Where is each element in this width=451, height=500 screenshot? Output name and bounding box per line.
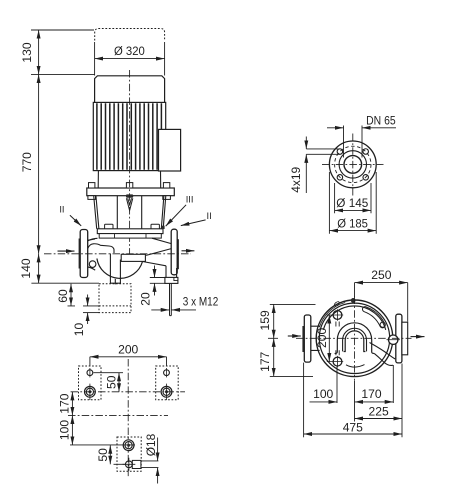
dimension 60 <box>68 284 100 306</box>
vertical chain line <box>127 359 129 477</box>
left foot bolt <box>85 384 96 400</box>
front view: inline pump with motor <box>19 29 218 337</box>
right counterflange <box>402 322 408 355</box>
svg-text:Ø 145: Ø 145 <box>336 196 368 210</box>
bolt hole top-right <box>363 149 369 155</box>
seal housing middle arch <box>343 328 367 351</box>
dimension 250 <box>355 283 408 322</box>
dimension 225 <box>355 364 403 438</box>
fan cover inner circle <box>319 303 389 373</box>
dimension 50 lower <box>110 445 126 464</box>
rear foot pad dashed <box>117 437 141 471</box>
dimension 100 (top view) <box>310 366 338 403</box>
svg-text:50: 50 <box>105 375 119 389</box>
svg-text:250: 250 <box>371 268 391 282</box>
dimension 20 <box>150 266 166 296</box>
dimension Ø320 <box>95 42 165 76</box>
bolt hole bottom-right <box>363 175 369 181</box>
right support bracket <box>166 266 177 278</box>
dimension 100 <box>71 415 73 445</box>
rear small hole <box>125 461 132 468</box>
left counterflange bar <box>79 239 81 269</box>
svg-text:Ø18: Ø18 <box>144 433 158 456</box>
dimension 170 (top view) <box>355 365 394 403</box>
seal housing plate <box>97 229 163 234</box>
bolt boss bottom <box>333 357 342 366</box>
dimension Ø185 <box>329 172 376 234</box>
dimension 475 <box>304 363 402 438</box>
base plan view (foot drilling) <box>57 342 185 483</box>
bolt hole bottom-left <box>337 175 343 181</box>
banana slot right <box>362 307 385 328</box>
svg-text:100: 100 <box>57 420 71 440</box>
port centerline <box>44 253 191 255</box>
extension line foot bottom <box>31 282 99 284</box>
shaft tip cone <box>126 198 132 210</box>
motor fin block <box>93 102 165 170</box>
bore circle <box>344 156 362 174</box>
svg-text:III: III <box>186 194 194 204</box>
discharge curves <box>370 343 396 366</box>
top view centerlines <box>296 337 412 339</box>
dimension 200 <box>90 357 167 366</box>
dashed outline larger motor option <box>95 29 165 41</box>
left foot pad dashed <box>79 366 102 400</box>
svg-text:20: 20 <box>138 292 152 306</box>
left flange (top view) <box>302 326 304 352</box>
dimension 50 upper <box>94 373 124 392</box>
bolt hole top-left <box>337 149 343 155</box>
svg-text:10: 10 <box>72 323 86 337</box>
suction nozzle lines <box>88 239 96 270</box>
raised face circle <box>339 151 366 178</box>
extension line motor top <box>31 73 95 75</box>
stool bolt left <box>88 183 96 200</box>
svg-text:177: 177 <box>258 351 272 371</box>
middle chain line <box>68 414 168 416</box>
svg-text:Ø 185: Ø 185 <box>337 216 368 230</box>
slot marks above bottom bolt <box>336 350 339 355</box>
svg-text:3 x M12: 3 x M12 <box>183 295 219 309</box>
slot marks below top bolt <box>336 322 339 327</box>
motor cooling fins <box>97 103 161 170</box>
svg-text:225: 225 <box>369 404 389 418</box>
svg-text:140: 140 <box>19 258 33 278</box>
svg-text:159: 159 <box>258 310 272 330</box>
dimension 177 <box>270 338 313 376</box>
flow arrow left (top view) <box>288 335 301 337</box>
rear foot bolt <box>123 440 134 451</box>
svg-text:60: 60 <box>56 289 70 303</box>
housing arc <box>323 306 385 330</box>
housing lower arc <box>346 365 365 368</box>
right foot pad dashed <box>156 366 179 400</box>
dimension 140 <box>38 254 40 283</box>
svg-text:170: 170 <box>361 387 381 401</box>
right foot bolt <box>161 384 172 400</box>
svg-text:130: 130 <box>20 42 34 62</box>
right pipe flange <box>171 229 177 275</box>
svg-text:4x19: 4x19 <box>289 167 303 193</box>
svg-text:50: 50 <box>96 448 110 462</box>
right counterflange bar <box>177 239 179 269</box>
seal drain block (III target) <box>161 226 164 229</box>
extension line rear bolt <box>70 444 135 446</box>
foundation dashed box <box>99 284 131 313</box>
chain line through bolts <box>71 391 185 393</box>
right flange (top view) <box>396 314 402 363</box>
suction pipe lines <box>311 326 320 350</box>
stool bolt center <box>126 183 132 188</box>
pump foot column <box>110 254 121 285</box>
drain plug circle <box>389 335 398 344</box>
bolt boss top <box>333 311 342 320</box>
motor foot sides <box>98 171 161 188</box>
center dark nut <box>126 194 133 197</box>
top view of pump <box>258 268 424 438</box>
dimension 170 <box>71 392 73 416</box>
dimension 130 <box>38 30 40 74</box>
flow arrow left <box>58 250 75 252</box>
drain boss <box>89 261 96 268</box>
left lifting tab <box>105 224 113 229</box>
motor stool plate <box>87 188 175 196</box>
vent dot <box>351 298 356 303</box>
dimension 10 <box>83 295 99 325</box>
svg-text:100: 100 <box>313 387 333 401</box>
svg-text:475: 475 <box>343 421 363 435</box>
svg-text:II: II <box>207 211 212 221</box>
volute top plate <box>99 234 161 239</box>
small slot left <box>319 303 345 328</box>
motor top cap <box>95 76 165 103</box>
dimension Ø18 <box>141 438 159 484</box>
left pipe flange <box>80 230 88 278</box>
dimension 4x19 <box>306 137 340 194</box>
svg-text:DN 65: DN 65 <box>366 114 396 128</box>
seal housing horseshoe outer <box>335 323 375 354</box>
stool bolt right <box>163 183 171 200</box>
svg-text:170: 170 <box>57 393 71 413</box>
volute upper profile <box>88 238 114 253</box>
volute tongue box <box>121 254 145 261</box>
flange outer circle <box>329 141 376 188</box>
left small hole <box>87 370 93 376</box>
terminal box <box>159 129 181 171</box>
banana screw <box>380 322 385 327</box>
volute bottom bowl <box>97 259 143 279</box>
dimension DN 65 <box>327 126 396 158</box>
svg-text:770: 770 <box>20 152 34 172</box>
bolt circle dashed <box>335 146 371 182</box>
right small hole <box>164 370 170 376</box>
svg-text:200: 200 <box>315 328 329 348</box>
motor centerline <box>129 70 131 256</box>
flange detail view DN65 <box>289 114 396 234</box>
lantern <box>94 196 166 229</box>
dimension 200 vertical <box>328 315 330 362</box>
seal housing horseshoe inner <box>344 331 366 352</box>
flange centerlines <box>322 163 384 165</box>
flow arrow right <box>182 250 195 252</box>
svg-text:II: II <box>59 205 64 215</box>
fan cover outer circle <box>316 300 393 377</box>
dimension 159 <box>268 304 316 338</box>
extension line top (130) <box>31 29 94 31</box>
svg-text:Ø 320: Ø 320 <box>114 44 145 58</box>
dimension 770 <box>38 74 40 253</box>
discharge nozzle lines <box>143 238 172 266</box>
anchor stud M12 <box>170 283 172 315</box>
flow arrow right (top view) <box>411 336 425 338</box>
svg-text:200: 200 <box>118 342 138 356</box>
right lifting tab <box>151 224 159 229</box>
rear tab plate <box>132 460 141 468</box>
dimension Ø145 <box>335 183 371 213</box>
